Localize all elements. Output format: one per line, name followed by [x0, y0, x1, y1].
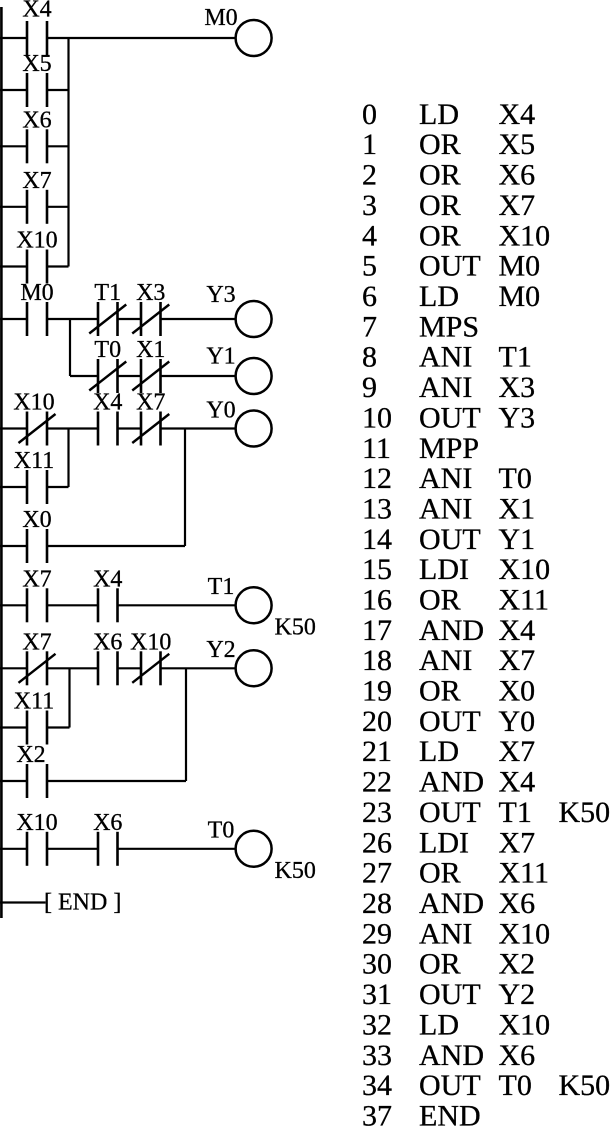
svg-text:AND: AND	[419, 614, 484, 647]
svg-text:T0: T0	[499, 462, 532, 495]
wire X3 to coil Y3 (rung 6)	[161, 318, 236, 320]
svg-text:14: 14	[362, 523, 392, 556]
svg-text:MPS: MPS	[419, 310, 479, 343]
svg-text:OUT: OUT	[419, 1069, 481, 1102]
wire X2 to riser (rung 14)	[47, 780, 186, 782]
svg-text:Y0: Y0	[499, 705, 536, 738]
wire rail to X4 (rung 1)	[0, 37, 27, 39]
coil M0 (rung 1)	[204, 5, 271, 56]
svg-text:T1: T1	[499, 796, 532, 829]
contact X10 (rung 15)	[16, 810, 57, 866]
svg-text:ANI: ANI	[419, 371, 472, 404]
svg-text:4: 4	[362, 219, 377, 252]
coil Y2 (rung 12)	[206, 637, 271, 686]
NC contact T0 (rung 7)	[89, 337, 126, 393]
svg-text:K50: K50	[559, 1069, 611, 1102]
wire branch vertical (X11 parallel lower)	[68, 668, 70, 727]
svg-text:X11: X11	[499, 584, 550, 617]
svg-text:LDI: LDI	[419, 826, 469, 859]
svg-text:OR: OR	[419, 128, 461, 161]
wire X6 to branch (rung 3)	[47, 145, 69, 147]
NC contact X7 (rung 12)	[19, 629, 56, 685]
wire X10 to X6 (rung 15)	[47, 848, 98, 850]
svg-text:22: 22	[362, 766, 392, 799]
svg-text:ANI: ANI	[419, 341, 472, 374]
svg-text:OUT: OUT	[419, 796, 481, 829]
wire X7 to branch (rung 4)	[47, 206, 69, 208]
svg-text:5: 5	[362, 250, 377, 283]
svg-text:X5: X5	[22, 51, 51, 77]
svg-text:X10: X10	[499, 219, 551, 252]
wire M0 to T1 (rung 6)	[47, 318, 98, 320]
wire X7 to X4 (rung 11)	[47, 604, 98, 606]
svg-text:OR: OR	[419, 857, 461, 890]
svg-text:AND: AND	[419, 766, 484, 799]
svg-text:8: 8	[362, 341, 377, 374]
svg-text:X6: X6	[499, 1039, 536, 1072]
svg-text:7: 7	[362, 310, 377, 343]
svg-text:X6: X6	[93, 629, 122, 655]
svg-text:15: 15	[362, 553, 392, 586]
contact X7 (rung 4)	[22, 168, 51, 224]
contact X6 (rung 15)	[93, 810, 122, 866]
svg-text:X3: X3	[499, 371, 536, 404]
svg-text:K50: K50	[275, 858, 316, 884]
wire X11 to branch (rung 9)	[47, 486, 69, 488]
END instruction box	[44, 890, 121, 916]
svg-text:AND: AND	[419, 1039, 484, 1072]
svg-text:18: 18	[362, 644, 392, 677]
svg-text:Y1: Y1	[206, 344, 235, 370]
svg-text:21: 21	[362, 735, 392, 768]
svg-text:X6: X6	[93, 810, 122, 836]
svg-text:X2: X2	[499, 948, 536, 981]
instruction list text	[362, 98, 610, 1127]
svg-text:AND: AND	[419, 887, 484, 920]
svg-text:3: 3	[362, 189, 377, 222]
NC contact X7 (rung 8)	[132, 390, 169, 446]
svg-text:32: 32	[362, 1008, 392, 1041]
svg-text:26: 26	[362, 826, 392, 859]
wire X10 to branch (rung 5)	[47, 265, 69, 267]
svg-text:LD: LD	[419, 98, 459, 131]
svg-text:10: 10	[362, 401, 392, 434]
wire riser vertical (X0 parallel to Y0 rung)	[184, 429, 186, 547]
wire rail to X7 (rung 4)	[0, 206, 27, 208]
wire rail to X2 (rung 14)	[0, 780, 27, 782]
coil Y1 (rung 7)	[206, 344, 271, 395]
svg-text:Y2: Y2	[206, 637, 235, 663]
svg-text:ANI: ANI	[419, 917, 472, 950]
contact X6 (rung 3)	[22, 107, 51, 163]
svg-text:X7: X7	[22, 629, 51, 655]
svg-text:M0: M0	[20, 280, 53, 306]
svg-text:13: 13	[362, 493, 392, 526]
contact X11 (rung 13)	[14, 689, 54, 745]
coil T0 (rung 15)	[208, 818, 316, 884]
wire X10 to X4 (rung 8)	[47, 427, 98, 429]
svg-text:X6: X6	[499, 159, 536, 192]
left power rail	[0, 7, 3, 918]
contact X0 (rung 10)	[22, 507, 51, 563]
svg-text:OUT: OUT	[419, 523, 481, 556]
svg-text:T0: T0	[94, 337, 121, 363]
svg-text:12: 12	[362, 462, 392, 495]
wire X11 to branch lower (rung 13)	[47, 726, 70, 728]
contact X7 (rung 11)	[22, 566, 51, 622]
svg-text:Y1: Y1	[499, 523, 536, 556]
wire rail to X7 NC (rung 12)	[0, 667, 27, 669]
wire X4 to coil M0 (rung 1)	[47, 37, 236, 39]
svg-text:X11: X11	[499, 857, 550, 890]
svg-text:X7: X7	[499, 826, 536, 859]
svg-text:11: 11	[362, 432, 391, 465]
svg-text:Y0: Y0	[206, 397, 235, 423]
svg-text:LD: LD	[419, 735, 459, 768]
NC contact X1 (rung 7)	[132, 337, 169, 393]
svg-text:M0: M0	[204, 5, 237, 31]
wire rail to X10 NC (rung 8)	[0, 427, 27, 429]
wire rail to X0 (rung 10)	[0, 545, 27, 547]
svg-text:X6: X6	[22, 107, 51, 133]
contact X6 (rung 12)	[93, 629, 122, 685]
svg-text:X11: X11	[14, 448, 54, 474]
wire X4 to X7 (rung 8)	[118, 427, 142, 429]
wire riser vertical (X2 parallel to Y2 rung)	[185, 668, 187, 781]
svg-text:OUT: OUT	[419, 978, 481, 1011]
svg-text:OUT: OUT	[419, 250, 481, 283]
coil Y3 (rung 6)	[206, 282, 271, 337]
contact X10 (rung 5)	[16, 228, 57, 284]
contact X11 (rung 9)	[14, 448, 54, 504]
svg-text:LD: LD	[419, 280, 459, 313]
NC contact X10 (rung 8)	[13, 390, 55, 446]
svg-text:28: 28	[362, 887, 392, 920]
svg-text:OUT: OUT	[419, 401, 481, 434]
wire rail to X11 (rung 9)	[0, 486, 27, 488]
wire branch vertical (MPS node)	[69, 319, 71, 376]
svg-text:X10: X10	[130, 629, 171, 655]
svg-text:X6: X6	[499, 887, 536, 920]
svg-text:X10: X10	[13, 390, 54, 416]
wire rail to X10 bottom (rung 15)	[0, 848, 27, 850]
wire X7 to X6 (rung 12)	[47, 667, 98, 669]
svg-text:X4: X4	[499, 98, 536, 131]
wire T1 to X3 (rung 6)	[118, 318, 142, 320]
svg-text:X3: X3	[136, 280, 165, 306]
coil T1 (rung 11)	[208, 574, 316, 640]
svg-text:OR: OR	[419, 159, 461, 192]
wire X6 to X10 (rung 12)	[118, 667, 142, 669]
svg-text:1: 1	[362, 128, 377, 161]
NC contact X3 (rung 6)	[132, 280, 169, 336]
svg-text:OR: OR	[419, 189, 461, 222]
svg-text:37: 37	[362, 1100, 392, 1127]
svg-text:ANI: ANI	[419, 644, 472, 677]
wire X7 to coil Y0 (rung 8)	[161, 427, 236, 429]
contact X4 (rung 1)	[22, 0, 51, 55]
wire X10 to coil Y2 (rung 12)	[161, 667, 236, 669]
contact X2 (rung 14)	[16, 742, 47, 798]
svg-text:6: 6	[362, 280, 377, 313]
svg-text:X7: X7	[499, 189, 536, 222]
svg-text:X4: X4	[22, 0, 51, 23]
wire branch vertical (X5..X10 parallel, node A)	[67, 38, 69, 267]
svg-text:M0: M0	[499, 250, 541, 283]
NC contact X10 (rung 12)	[130, 629, 171, 685]
wire X1 to coil Y1 (rung 7)	[161, 375, 236, 377]
svg-text:K50: K50	[559, 796, 611, 829]
svg-text:X7: X7	[136, 390, 165, 416]
svg-text:END: END	[419, 1100, 481, 1127]
svg-text:OR: OR	[419, 584, 461, 617]
svg-text:ANI: ANI	[419, 493, 472, 526]
svg-text:X0: X0	[499, 675, 536, 708]
svg-text:X4: X4	[499, 614, 536, 647]
svg-text:16: 16	[362, 584, 392, 617]
svg-text:2: 2	[362, 159, 377, 192]
svg-text:LDI: LDI	[419, 553, 469, 586]
svg-text:T1: T1	[208, 574, 235, 600]
wire branch vertical (X11 parallel)	[67, 429, 69, 488]
svg-text:29: 29	[362, 917, 392, 950]
svg-text:X10: X10	[16, 810, 57, 836]
wire rail to END instruction (rung 16)	[0, 901, 46, 903]
contact X4 (rung 11)	[93, 566, 122, 622]
svg-text:ANI: ANI	[419, 462, 472, 495]
svg-text:X5: X5	[499, 128, 536, 161]
wire rail to X6 (rung 3)	[0, 145, 27, 147]
wire X6 to coil T0 (rung 15)	[118, 848, 236, 850]
svg-text:K50: K50	[275, 614, 316, 640]
svg-text:LD: LD	[419, 1008, 459, 1041]
svg-text:T0: T0	[499, 1069, 532, 1102]
svg-text:X7: X7	[499, 735, 536, 768]
svg-text:X0: X0	[22, 507, 51, 533]
contact X5 (rung 2)	[22, 51, 51, 107]
svg-text:X1: X1	[499, 493, 536, 526]
svg-text:T1: T1	[499, 341, 532, 374]
contact X4 (rung 8)	[93, 390, 122, 446]
svg-text:Y2: Y2	[499, 978, 536, 1011]
svg-text:19: 19	[362, 675, 392, 708]
svg-text:Y3: Y3	[499, 401, 536, 434]
svg-text:T1: T1	[94, 280, 121, 306]
wire rail to M0 contact (rung 6)	[0, 318, 27, 320]
svg-text:X4: X4	[499, 766, 536, 799]
wire rail to X7 (rung 11)	[0, 604, 27, 606]
svg-text:OUT: OUT	[419, 705, 481, 738]
svg-text:X7: X7	[499, 644, 536, 677]
svg-text:23: 23	[362, 796, 392, 829]
wire T0 to X1 (rung 7)	[118, 375, 142, 377]
wire X4 to coil T1 (rung 11)	[118, 604, 236, 606]
svg-text:0: 0	[362, 98, 377, 131]
svg-text:X4: X4	[93, 390, 122, 416]
svg-text:X10: X10	[16, 228, 57, 254]
svg-text:X4: X4	[93, 566, 122, 592]
wire X0 to riser (rung 10)	[47, 545, 185, 547]
wire rail to X10 (rung 5)	[0, 265, 27, 267]
svg-text:OR: OR	[419, 219, 461, 252]
svg-text:Y3: Y3	[206, 282, 235, 308]
svg-text:31: 31	[362, 978, 392, 1011]
wire X5 to branch (rung 2)	[47, 89, 69, 91]
svg-text:OR: OR	[419, 948, 461, 981]
svg-text:20: 20	[362, 705, 392, 738]
wire branch to T0 (rung 7)	[70, 375, 98, 377]
coil Y0 (rung 8)	[206, 397, 271, 446]
svg-text:T0: T0	[208, 818, 235, 844]
svg-text:X7: X7	[22, 168, 51, 194]
svg-text:X10: X10	[499, 917, 551, 950]
NC contact T1 (rung 6)	[89, 280, 126, 336]
svg-text:34: 34	[362, 1069, 392, 1102]
svg-text:X10: X10	[499, 553, 551, 586]
svg-text:27: 27	[362, 857, 392, 890]
svg-text:9: 9	[362, 371, 377, 404]
svg-text:17: 17	[362, 614, 392, 647]
svg-text:X2: X2	[16, 742, 45, 768]
svg-text:30: 30	[362, 948, 392, 981]
svg-text:X7: X7	[22, 566, 51, 592]
svg-text:[ END ]: [ END ]	[44, 890, 121, 916]
contact M0 (rung 6)	[20, 280, 53, 336]
wire rail to X11 lower (rung 13)	[0, 726, 27, 728]
svg-text:M0: M0	[499, 280, 541, 313]
svg-text:X1: X1	[136, 337, 165, 363]
wire rail to X5 (rung 2)	[0, 89, 27, 91]
svg-text:X11: X11	[14, 689, 54, 715]
svg-text:OR: OR	[419, 675, 461, 708]
svg-text:MPP: MPP	[419, 432, 479, 465]
svg-text:X10: X10	[499, 1008, 551, 1041]
svg-text:33: 33	[362, 1039, 392, 1072]
